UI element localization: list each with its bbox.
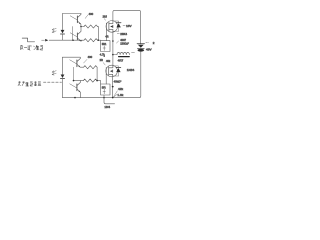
pulse signal source symbol (turbine signal input) [22,38,34,42]
node junction R3-R4 [96,80,98,82]
node junction source dot [112,86,114,88]
LED D2 anode wire [62,57,64,74]
text off signal label [18,81,41,86]
wire emitter rail y67 [80,66,83,68]
wire opto2 top loop [63,56,81,58]
wire R4 to box [97,81,101,84]
wire box C bottom stub [103,95,105,98]
MOSFET U2 envelope [106,65,118,77]
label 42k with pointer [113,91,117,97]
svg-text:5R: 5R [102,85,107,89]
svg-text:2SK4: 2SK4 [120,32,127,36]
wire R3 to corner down [96,67,98,80]
node junction lower vertical [73,80,75,82]
svg-text:4007: 4007 [120,38,126,42]
svg-text:2R: 2R [100,58,103,62]
MOSFET U2 gate lead down [105,75,107,84]
label 400 with pointer [85,15,88,19]
svg-text:1.3k: 1.3k [117,93,123,97]
wire ground stub y104 [104,98,115,104]
text turbine signal label [20,45,42,50]
svg-text:40kΩ*: 40kΩ* [114,79,123,83]
label 18V with dash [123,25,125,27]
svg-text:2SJ: 2SJ [103,16,108,19]
wire rail to gate box [98,39,101,41]
svg-text:4.7k: 4.7k [100,53,106,57]
phototransistor Q3 [76,60,78,67]
body diode D4 [113,66,119,67]
wire source vertical down [112,30,114,68]
MOSFET U2 gate and channel [105,68,107,75]
wire base vertical [72,27,74,41]
relay coil L1 [113,54,117,56]
wire emitter rail y26.5 [81,26,84,28]
battery BT1 bar [137,47,144,49]
wire right rail lower [63,52,141,98]
label 4007 with pointer [116,41,118,43]
svg-text:120Ω±*: 120Ω±* [120,42,129,46]
svg-text:40k: 40k [106,59,111,63]
svg-text:1N34: 1N34 [127,68,135,72]
node junction resistor join [98,39,100,41]
resistor R3 [84,66,97,69]
svg-text:1N4: 1N4 [104,105,110,109]
label 2SK4 [117,33,119,35]
node junction box C stub [103,97,105,99]
node junction LED2 rail [74,97,76,99]
svg-text:400: 400 [89,12,94,16]
svg-text:2: 2 [153,41,155,45]
svg-text:42k: 42k [118,87,123,91]
wire optocoupler top loop [63,13,82,15]
svg-text:5R1: 5R1 [102,43,107,46]
wire base vertical lower [73,67,75,80]
MOSFET U1 gate and channel [105,23,107,30]
phototransistor Q4 [76,84,78,91]
body diode D3 [113,21,119,23]
wire dash before arrow [42,39,45,41]
MOSFET U1 gate lead down [105,30,107,41]
signal arrow [45,39,48,42]
node junction source-gatebox [112,40,114,42]
MOSFET U1 envelope [106,21,118,33]
svg-text:4R7: 4R7 [118,59,124,63]
phototransistor Q1 [76,16,78,23]
LED D2 [61,75,65,79]
node junction below box A [104,56,105,57]
svg-text:400: 400 [88,55,93,59]
dashed off-signal wire [44,81,62,83]
label 2SJ with pointer [104,19,105,21]
wire top signal rail y40 [49,39,84,41]
LED D2 emission arrows [52,71,56,73]
LED D1 anode wire [62,14,64,30]
battery BT1 diode [138,45,144,48]
resistor R2 (on rail) [84,39,97,42]
wire drain up and top rail [113,10,141,44]
gate protection box Z1 [101,41,110,52]
phototransistor Q2 [76,33,78,40]
LED D1 [61,30,65,34]
node junction Q1-Q2 [80,26,82,28]
svg-text:4R: 4R [105,36,108,39]
node junction source-coil [112,54,114,56]
wire source U2 down [112,74,114,97]
wire collector rail y80.6 [74,80,84,82]
svg-text:48V: 48V [146,48,152,52]
battery BT1 plate [137,43,144,45]
resistor R1 [84,25,97,28]
node junction source rail [112,97,114,99]
resistor R4 [83,79,96,82]
LED D1 emission arrows [52,28,56,30]
svg-text:18V: 18V [126,24,132,28]
battery BT1 cell blob [138,49,145,52]
label 1.3k with pointer [114,94,117,97]
label 400 lower with pointer [84,59,87,63]
node junction on rail [72,39,74,41]
label 2 with dash [146,42,149,44]
wire R1 to corner down [98,27,99,41]
gate protection box Z2 [101,84,110,95]
